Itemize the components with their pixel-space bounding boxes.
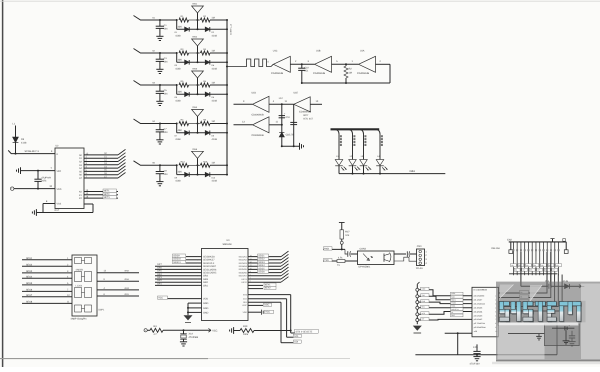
svg-text:VDD: VDD [203,298,208,301]
svg-text:TXD: TXD [324,259,329,262]
diode D12 [565,284,570,289]
node bus diode junction [226,174,228,176]
wire SEG5 input [22,284,72,286]
svg-text:43K: 43K [178,129,183,132]
wire U3 VDD pin [167,298,202,300]
svg-text:4TUF369: 4TUF369 [189,336,199,339]
resistor R1 [179,18,189,22]
connector CN2 pin 5 [524,242,526,252]
opto transistor symbol [383,254,385,262]
diode D1 [185,27,190,32]
svg-text:GND: GND [203,307,209,310]
wire to bus [210,52,227,54]
connector CN3 [417,249,425,266]
crystal X1A [183,330,185,333]
svg-text:4148: 4148 [21,142,27,145]
wire key line S1 [84,157,118,159]
net label CN2 pin 10 [541,264,547,267]
wire diode branch [176,20,178,29]
opto LED symbol [363,254,370,261]
wire U3 left pin 4 [155,265,202,267]
svg-text:SDI: SDI [294,341,298,344]
capacitor small left [538,334,540,337]
wire key line S3 [84,164,118,166]
resistor R7 [179,122,189,126]
ground crystal [180,341,187,343]
net label STB [295,329,319,333]
wire output GR3 [97,289,139,291]
svg-text:D8P1: D8P1 [99,308,105,311]
wire U3 right pin SEG2/K2 [248,259,281,261]
net label CN2 pin 12 [548,264,554,267]
svg-text:DSC: DSC [264,304,269,307]
svg-text:GR5: GR5 [157,270,162,273]
wire RXD line [323,248,345,250]
svg-text:RXB: RXB [324,247,329,250]
svg-text:CD4069UB: CD4069UB [252,114,264,117]
antenna symbol SW3 [197,78,199,85]
wire U3 left pin 7 [155,275,202,277]
wire CN2 ground bus [509,273,558,275]
svg-text:VSS: VSS [57,203,62,206]
node scan-key junction [15,153,17,155]
wire U3 left pin 1 [186,256,202,258]
svg-text:SW5: SW5 [192,148,198,151]
svg-text:SEG7/K7: SEG7/K7 [238,275,247,278]
svg-text:VEE: VEE [57,170,62,173]
connector pin 5 [416,313,419,316]
wire U3 left pin 6 [155,272,202,274]
node oscillator tap [226,66,228,68]
svg-text:SEG8: SEG8 [26,300,33,303]
svg-text:4148: 4148 [212,180,218,183]
svg-text:U1E: U1E [294,92,299,95]
wire U3 KEY2 pin [248,288,263,290]
wire diode branch [176,53,178,62]
wire U3 CLK route [248,298,287,300]
svg-text:SEG6: SEG6 [258,271,265,274]
wire U3 right pin SEG5/K5 [248,268,281,270]
svg-text:4TUF16V: 4TUF16V [470,363,481,366]
wire serial INT [419,318,472,321]
scan border bottom-left smudge [0,358,208,360]
svg-text:p0.7/adr1/tst: p0.7/adr1/tst [474,322,486,325]
svg-text:U1C: U1C [273,50,278,53]
wire serial RXD [419,302,472,304]
node LED bus junction [379,173,381,175]
connector CN2 pin 14 [558,242,560,252]
wire CN2 long pin [550,252,552,286]
net label NET2 [103,192,117,195]
wire input line S5 [134,161,161,166]
node input junction S1 [159,19,161,21]
svg-text:GB1: GB1 [410,170,416,173]
svg-text:SEG3/K3: SEG3/K3 [238,262,247,265]
watermark right light band [581,284,600,360]
node input junction S2 [159,52,161,54]
power label VCC [208,328,211,332]
svg-text:G0: G0 [541,264,543,267]
wire U3 right pin KEY1 [248,278,281,280]
capacitor C15 series [345,249,347,254]
svg-text:104: 104 [164,173,169,176]
wire U3 right pin SEG1/K1 [248,256,281,258]
svg-text:SEG5/K5: SEG5/K5 [238,268,247,271]
wire U1F output [269,124,282,126]
wire CN2 long pin [520,252,522,286]
capacitor C14 [548,284,550,289]
svg-text:4148: 4148 [212,34,218,37]
wire SEG3 input [22,272,72,274]
wire input line S2 [134,49,161,54]
svg-text:1M: 1M [211,81,214,84]
svg-text:104: 104 [164,28,169,31]
wire input line S3 [134,81,161,86]
svg-text:VCC: VCC [158,297,163,300]
capacitor C1 [159,20,161,26]
svg-text:SEG1: SEG1 [26,257,33,260]
svg-text:4148: 4148 [212,99,218,102]
ground [156,68,163,70]
svg-text:43K: 43K [178,58,183,61]
svg-text:G4: G4 [556,264,558,267]
wire LED L4 to bus [379,166,381,174]
node diode mid junction [197,124,199,133]
svg-text:4148: 4148 [175,180,181,183]
svg-text:U1D: U1D [252,92,257,95]
svg-text:1M: 1M [211,120,214,123]
wire net line K0 [84,191,118,193]
wire SEG7 input [22,296,72,298]
svg-text:p0.4/adr4: p0.4/adr4 [474,310,483,313]
wire SEG2 input [22,265,72,267]
svg-text:vdd: vdd [474,330,477,333]
net label NET3 [103,196,117,199]
watermark bottom outside smudge [492,362,600,364]
wire to bus [210,123,227,125]
wire U3 left pin 3 [186,262,202,264]
wire net line K1 [84,194,118,196]
svg-text:VCC: VCC [265,311,270,314]
svg-text:DIO: DIO [243,301,247,304]
node mid SW3 [197,84,199,86]
diode D11 zener [279,132,284,137]
node bus junction [226,19,228,21]
net label L2 drop [353,135,355,137]
svg-text:SEG6: SEG6 [26,288,33,291]
watermark triangle 1 [500,285,514,299]
svg-text:43K: 43K [178,25,183,28]
wire serial TXD [419,296,472,299]
connector CN2 pin 9 [539,242,541,252]
svg-text:4148: 4148 [212,67,218,70]
wire diode branch [176,124,178,133]
wire U1B output [332,63,359,65]
svg-text:SEG4: SEG4 [26,275,33,278]
svg-text:43K: 43K [178,90,183,93]
wire vertical node A [281,104,283,146]
svg-text:G1: G1 [515,268,517,271]
net label CN2 pin 4 [518,264,524,267]
svg-text:IC1 ADM9B4S: IC1 ADM9B4S [474,289,488,292]
svg-text:CD5.7B: CD5.7B [286,133,295,136]
ground R19 side [233,327,235,334]
wire U3 GND pins [188,302,202,304]
capacitor C3 [159,53,161,59]
diode D2 [205,27,210,32]
svg-text:DB-15A: DB-15A [492,247,501,250]
wire U3 left pin 2 [186,259,202,261]
op-amp U1E inverter [294,97,311,112]
svg-text:GND: GND [203,302,209,305]
net label CN2 pin 2 [511,264,517,267]
svg-text:CD4069UB: CD4069UB [299,110,311,113]
svg-text:U1B: U1B [316,50,321,53]
node mid SW1 [197,19,199,21]
terminal plus R3 [144,329,147,332]
svg-text:KEY1: KEY1 [242,278,248,281]
watermark inner gray box [544,324,579,346]
diode D9 [185,172,190,177]
svg-text:G4: G4 [526,264,528,267]
svg-text:47U: 47U [285,116,290,119]
wire U1E output [310,103,322,105]
svg-text:CN3: CN3 [417,245,422,248]
svg-text:47UF-MY: 47UF-MY [41,176,51,179]
capacitor C9 [159,165,161,171]
capacitor C7 [159,124,161,130]
connector pin 1 [416,288,419,291]
net label CN2 pin 3 [514,268,520,271]
wire CN2 to IC1 [499,275,548,294]
antenna symbol SW5 [197,158,199,165]
wire bottom to ground [282,145,299,147]
connector CN2 end pad right [565,242,567,250]
svg-text:SEG1/K1: SEG1/K1 [238,255,247,258]
diode D10 [205,172,210,177]
svg-text:GND: GND [203,311,209,314]
wire VSS pin [43,203,55,205]
connector pin 2 [416,295,419,298]
svg-text:GR7: GR7 [157,263,162,266]
wire SEG4 input [22,277,72,279]
svg-text:SCAN-KEY 3: SCAN-KEY 3 [25,150,40,153]
net label CN2 pin 6 [526,264,532,267]
node junction R14 [176,164,178,166]
wire input line S1 [134,16,161,21]
ground [156,35,163,37]
svg-text:G0: G0 [511,264,513,267]
wire R3 to VCC [163,329,211,331]
wire key line S4 [84,167,118,169]
svg-text:CD4069UB: CD4069UB [271,72,283,75]
node input junction S4 [159,123,161,125]
antenna symbol SW2 [197,46,199,53]
wire arrow out [569,285,581,287]
watermark SYSTEM text [499,302,582,323]
IC U3 box SM1628 [202,249,249,321]
net label CN2 pin 9 [537,268,543,271]
svg-text:GR6: GR6 [157,266,162,269]
op-amp U1C inverter [273,56,290,72]
wire RST loop [92,204,94,213]
node feedback R2 [345,82,347,84]
svg-text:1AB1: 1AB1 [451,292,455,295]
node U1C out [301,63,303,65]
ground VEE [20,167,22,174]
wire U3 STB route [248,294,291,296]
node bus junction [226,123,228,125]
node R17 junction [341,248,343,250]
svg-text:7AB1: 7AB1 [451,305,455,308]
svg-text:U1A: U1A [360,50,365,53]
node junction R3 [176,52,178,54]
net label column mid [451,292,464,295]
connector J2 pin column [416,284,418,324]
wire U3 left pin 10 [155,284,202,286]
watermark base [496,282,600,362]
net label L3 drop [364,135,366,137]
wire key line S2 [84,161,118,163]
wire key line S0 [84,154,118,156]
node bus diode junction [226,61,228,63]
node input junction S3 [159,84,161,86]
wire U3 right pin SEG7/K7 [248,275,281,277]
node bus diode junction [226,28,228,30]
wire into gray box [508,333,544,335]
svg-text:4148: 4148 [212,138,218,141]
svg-text:43K: 43K [178,171,183,174]
wire LED drop L2 [347,129,353,159]
connector pin 4 [416,306,419,309]
wire U1A output feedback [376,63,391,65]
svg-text:SW1: SW1 [192,3,198,6]
svg-text:2473: 2473 [41,180,47,183]
wire LED drop L3 [358,129,364,159]
wire net line K2 [84,197,118,199]
scan border top edge [0,0,600,2]
ground J2 [413,326,422,331]
wire U3 VDD right pin [248,311,261,313]
svg-text:4N60B: 4N60B [76,269,84,272]
wire to resistor [160,123,177,125]
svg-text:G3: G3 [553,268,555,271]
net label DIO [293,340,301,343]
wire LED L3 to bus [363,166,365,174]
wire SEG6 input [22,290,72,292]
svg-text:SEG2: SEG2 [26,263,33,266]
op-amp U1B inverter [315,56,332,72]
svg-text:SEG5: SEG5 [26,282,33,285]
svg-text:SW2: SW2 [192,36,198,39]
svg-text:CD4069UB: CD4069UB [252,134,264,137]
svg-text:GR2: GR2 [157,279,162,282]
ground sideways [299,143,301,150]
node LED bus junction [363,173,365,175]
svg-text:4148: 4148 [175,34,181,37]
resistor R16 [200,163,210,167]
net label L1 drop [340,135,342,137]
resistor R5 [179,83,189,87]
wire LED drop L1 [334,129,340,159]
wire to resistor [160,19,177,21]
wire SEG1 input [22,259,72,261]
connector CN2 pin 11 [546,242,548,252]
diode D5 [185,92,190,97]
svg-text:SW3: SW3 [192,68,198,71]
wire diode branch [176,85,178,94]
resistor R19 [234,330,240,332]
svg-text:STB: STB [243,293,248,296]
diode D7 [185,131,190,136]
node U1B out [345,63,347,65]
svg-text:X1A: X1A [189,333,194,336]
node diode mid junction [197,20,199,29]
capacitor C5 [159,85,161,91]
watermark triangle 2 [530,285,542,301]
svg-text:p0.2/adr1/ps: p0.2/adr1/ps [474,302,485,305]
connector CN2 end pad left [510,242,512,250]
scan border left edge [2,0,4,367]
svg-text:TX: TX [337,264,340,267]
ground [156,139,163,141]
wire LED L2 to bus [352,166,354,174]
wire summing bus vertical [226,20,228,175]
svg-text:YK-4A: YK-4A [416,267,423,270]
svg-text:NET3: NET3 [104,196,111,199]
svg-text:104: 104 [164,131,169,134]
svg-text:CLK: CLK [243,298,248,301]
net label NET1 [103,189,117,192]
svg-text:CD4069UB: CD4069UB [357,72,369,75]
resistor pack elements [75,258,82,264]
net label CN2 pin 5 [522,268,528,271]
svg-text:GR4: GR4 [157,273,162,276]
power VCC bar [339,222,345,224]
svg-text:KEY2: KEY2 [242,281,248,284]
wire SCAN-KEY input [8,150,55,153]
diode D4 [205,60,210,65]
svg-text:p0.0/adrl/sb: p0.0/adrl/sb [474,295,485,298]
svg-text:GR1: GR1 [203,284,209,287]
resistor R14 [179,163,189,167]
wire U3 left pin 8 [155,278,202,280]
svg-text:4148: 4148 [175,99,181,102]
wire CN2 to IC1 [499,275,563,312]
svg-text:GR1: GR1 [157,282,162,285]
wire LED drop L4 [375,129,381,159]
diode D9 [15,126,17,138]
svg-text:p0.3/adr5: p0.3/adr5 [474,306,483,309]
svg-text:p0.5/adr3: p0.5/adr3 [474,314,483,317]
terminal circle [341,239,343,241]
wire CN2 long pin [546,252,548,286]
wire LED common bus GB1 [339,173,445,175]
connector pin 3 [416,301,419,304]
wire U1D output [269,103,294,105]
wire U3 KEY1 pin [248,284,263,286]
node mid SW4 [197,123,199,125]
wire CN2 to IC1 [499,275,551,298]
wire U3 right pin SEG6/K6 [248,272,281,274]
antenna symbol SW1 [197,13,199,20]
svg-text:4148: 4148 [175,138,181,141]
watermark white strip under letters [499,323,579,326]
wire U3 right pin SEG4/K4 [248,265,281,267]
wire square-wave signal [227,59,273,67]
node junction R7 [176,123,178,125]
node R19 STB junction [290,330,292,332]
